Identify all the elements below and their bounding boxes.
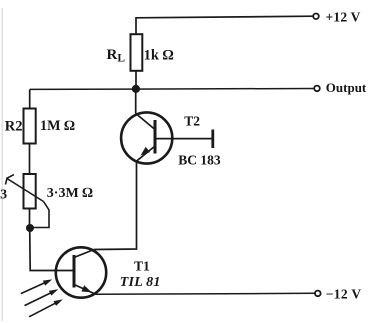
- wire R3 bottom: [29, 209, 31, 228]
- transistor T2 (BC 183): [121, 112, 172, 163]
- resistor R3 (preset rheostat): [24, 174, 36, 209]
- resistor R2: [24, 109, 36, 144]
- wire output node down to T2 collector: [135, 89, 137, 114]
- svg-text:BC 183: BC 183: [178, 153, 221, 168]
- wire output rail: [30, 88, 314, 91]
- wire T2 base lead: [155, 138, 212, 140]
- light arrow 1: [21, 279, 52, 293]
- wire RL bottom to output node: [135, 71, 137, 89]
- terminal +12V: [313, 13, 319, 19]
- svg-text:T2: T2: [184, 114, 200, 129]
- transistor T1 (phototransistor TIL 81): [56, 247, 106, 297]
- svg-text:−12 V: −12 V: [326, 287, 362, 302]
- resistor RL: [131, 34, 143, 71]
- R3 wiper arrow: [6, 175, 44, 202]
- svg-text:+12 V: +12 V: [326, 9, 361, 24]
- T2 base terminal bar: [211, 130, 214, 149]
- wire R3 wiper to bottom junction: [31, 202, 49, 228]
- wire +12V rail: [136, 16, 313, 34]
- svg-text:1k Ω: 1k Ω: [144, 47, 174, 63]
- svg-text:3·3M Ω: 3·3M Ω: [47, 186, 93, 201]
- junction node R3/wiper: [26, 224, 34, 232]
- wire R2 to R3: [29, 144, 31, 175]
- light arrow 2: [25, 289, 59, 305]
- svg-text:R2: R2: [5, 118, 23, 134]
- svg-text:Output: Output: [326, 80, 367, 95]
- wire junction down and to T1 base: [30, 228, 74, 271]
- wire left branch down to R2: [29, 89, 31, 108]
- scan edge line (decorative): [1, 8, 3, 321]
- terminal -12V: [315, 291, 321, 297]
- svg-text:TIL 81: TIL 81: [120, 275, 161, 290]
- terminal Output: [314, 86, 320, 92]
- junction node at RL/T2 collector: [132, 85, 140, 93]
- svg-text:R3: R3: [0, 188, 7, 203]
- svg-text:1M Ω: 1M Ω: [40, 118, 75, 134]
- wire -12V rail: [96, 293, 315, 294]
- light arrow 3: [29, 299, 63, 316]
- wire T1 collector to T2 emitter: [94, 162, 137, 250]
- svg-text:T1: T1: [134, 258, 150, 273]
